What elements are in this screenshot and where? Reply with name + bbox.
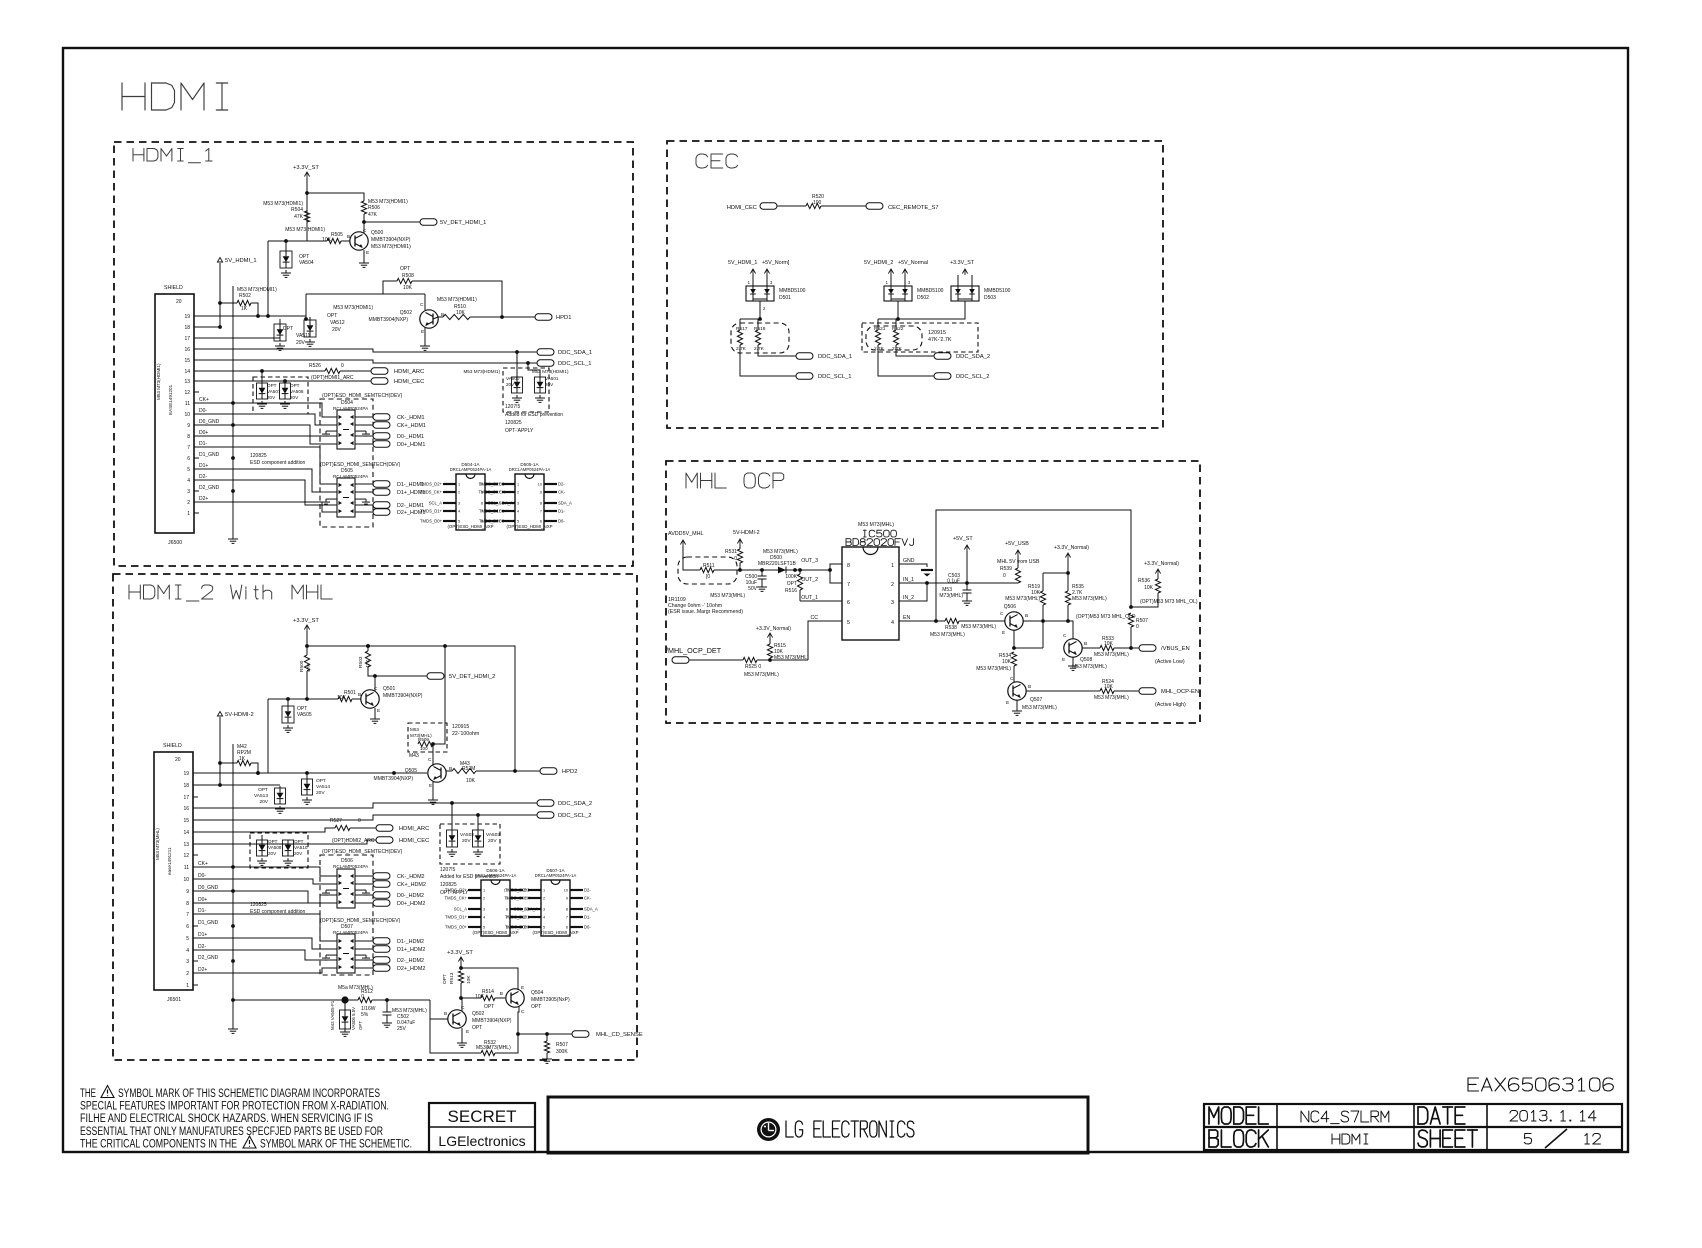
ports D504 outputs bbox=[355, 416, 373, 418]
svg-text:D0+: D0+ bbox=[199, 430, 208, 436]
ground VA503 bbox=[477, 849, 479, 852]
svg-text:TMDS_CK+: TMDS_CK+ bbox=[505, 896, 528, 901]
svg-text:D0_GND: D0_GND bbox=[199, 419, 220, 425]
svg-text:M53 M73(MHL): M53 M73(MHL) bbox=[1022, 705, 1057, 711]
svg-text:R539: R539 bbox=[1000, 566, 1012, 572]
svg-text:0.1uF: 0.1uF bbox=[947, 579, 960, 585]
label 5V-HDMI-2 bbox=[217, 712, 222, 717]
HDMI_1 section box bbox=[114, 142, 633, 566]
svg-text:10K: 10K bbox=[1002, 659, 1012, 665]
svg-text:7: 7 bbox=[566, 916, 568, 920]
port /MHL_OCP_DET bbox=[672, 657, 689, 663]
ground VA500 bbox=[516, 395, 518, 398]
svg-text:5: 5 bbox=[187, 467, 190, 473]
secret box bbox=[429, 1103, 535, 1152]
svg-text:18: 18 bbox=[183, 783, 189, 789]
wire DET row bbox=[757, 659, 808, 661]
svg-text:(OPT)HDMI1_ARC: (OPT)HDMI1_ARC bbox=[311, 375, 354, 381]
port DDC_SDA_2 bbox=[537, 800, 554, 806]
resistor R507 300K bbox=[546, 1034, 548, 1041]
svg-text:1: 1 bbox=[891, 563, 894, 569]
svg-text:DDC_SCL_2: DDC_SCL_2 bbox=[558, 813, 592, 819]
svg-text:M53 M73(MHL): M53 M73(MHL) bbox=[155, 828, 160, 860]
svg-text:(Active High): (Active High) bbox=[1155, 702, 1186, 708]
svg-text:D2_GND: D2_GND bbox=[198, 955, 219, 961]
svg-text:+3.3V_Normal): +3.3V_Normal) bbox=[1054, 545, 1089, 551]
value sheet 5 bbox=[1524, 1134, 1531, 1145]
svg-text:15: 15 bbox=[183, 818, 189, 824]
svg-text:2.7K: 2.7K bbox=[754, 346, 765, 352]
ground Q500 emitter bbox=[363, 250, 365, 260]
svg-text:R522: R522 bbox=[892, 326, 904, 332]
svg-text:5: 5 bbox=[543, 926, 545, 930]
svg-text:5V-HDMI-2: 5V-HDMI-2 bbox=[225, 712, 254, 718]
svg-text:11: 11 bbox=[185, 401, 190, 407]
svg-text:D0-: D0- bbox=[558, 519, 565, 524]
ports D507 outputs bbox=[355, 940, 373, 942]
svg-text:CK-: CK- bbox=[584, 896, 592, 901]
svg-text:Q508: Q508 bbox=[1080, 657, 1092, 663]
wires into D503 bbox=[957, 275, 959, 286]
wire HDMI_CEC row bbox=[199, 380, 371, 382]
wire pullup rail bbox=[1043, 559, 1068, 573]
svg-text:1: 1 bbox=[187, 511, 190, 517]
svg-text:/VBUS_EN: /VBUS_EN bbox=[1161, 646, 1190, 652]
svg-text:B: B bbox=[1084, 641, 1087, 647]
svg-text:9: 9 bbox=[540, 491, 542, 495]
svg-text:47K: 47K bbox=[306, 663, 312, 672]
svg-text:CK+_HDM2: CK+_HDM2 bbox=[397, 882, 426, 888]
resistor R503 47K bbox=[367, 646, 369, 651]
svg-text:VA514: VA514 bbox=[316, 784, 330, 790]
svg-text:5V_DET_HDMI_2: 5V_DET_HDMI_2 bbox=[449, 674, 495, 680]
svg-text:5: 5 bbox=[483, 926, 485, 930]
svg-text:D1_GND: D1_GND bbox=[199, 452, 220, 458]
svg-text:M43: M43 bbox=[409, 753, 419, 759]
MHL OCP section box bbox=[666, 461, 1200, 723]
MHL OCP section title bbox=[686, 473, 697, 488]
ground VA511 bbox=[279, 343, 281, 346]
svg-text:(OPT)M53 M73 MHL_OL): (OPT)M53 M73 MHL_OL) bbox=[1140, 599, 1198, 605]
svg-text:D2-: D2- bbox=[198, 944, 206, 950]
wire rail down (hdmi2) bbox=[267, 699, 269, 773]
capacitor C503 0.1uF bbox=[966, 583, 968, 590]
resistor R538 bbox=[945, 618, 959, 623]
svg-text:R516: R516 bbox=[785, 588, 797, 594]
svg-text:20V: 20V bbox=[462, 838, 471, 844]
svg-text:R504: R504 bbox=[291, 207, 303, 213]
svg-text:5V_HDMI_2: 5V_HDMI_2 bbox=[864, 260, 893, 266]
svg-text:SDA_A: SDA_A bbox=[558, 501, 572, 506]
svg-text:B: B bbox=[500, 991, 503, 997]
svg-text:10K: 10K bbox=[1104, 684, 1114, 690]
CEC section title bbox=[696, 154, 708, 168]
svg-text:300K: 300K bbox=[556, 1049, 568, 1055]
svg-text:10K: 10K bbox=[466, 975, 472, 984]
svg-text:TMDS_D2+: TMDS_D2+ bbox=[479, 482, 502, 487]
svg-text:(OPT)HDMI2_ARC: (OPT)HDMI2_ARC bbox=[332, 838, 375, 844]
wire D501 common bbox=[759, 301, 761, 319]
svg-text:5: 5 bbox=[517, 520, 519, 524]
svg-text:Q502: Q502 bbox=[400, 310, 412, 316]
svg-text:DRCLAMP0524PA-1A: DRCLAMP0524PA-1A bbox=[450, 467, 492, 472]
resistor R524 10K bbox=[1026, 690, 1100, 692]
svg-text:Q507: Q507 bbox=[1030, 697, 1042, 703]
svg-text:47K: 47K bbox=[294, 214, 304, 220]
svg-text:OPT: OPT bbox=[290, 383, 300, 388]
svg-text:OPT: OPT bbox=[484, 1004, 494, 1010]
svg-text:C: C bbox=[428, 757, 432, 763]
svg-text:[0: [0 bbox=[706, 574, 710, 580]
port 5V_DET_HDMI_1 bbox=[420, 219, 437, 225]
wire Q504 collector bbox=[518, 1006, 519, 1034]
HDMI_2 section title bbox=[128, 585, 130, 599]
svg-text:Added for ESD prevention: Added for ESD prevention bbox=[505, 412, 563, 418]
wire R503 to port row bbox=[368, 667, 375, 676]
resistor R504 47K bbox=[304, 211, 309, 222]
ground Q502 (hdmi2) bbox=[461, 1028, 463, 1040]
label DATE bbox=[1417, 1107, 1419, 1124]
svg-text:D0+: D0+ bbox=[198, 897, 207, 903]
ground VA507 bbox=[261, 401, 263, 404]
svg-text:M53 M73(MHL): M53 M73(MHL) bbox=[961, 624, 996, 630]
svg-text:R500: R500 bbox=[299, 660, 305, 672]
svg-text:47K-'2.7K: 47K-'2.7K bbox=[928, 337, 952, 343]
svg-text:10: 10 bbox=[184, 412, 190, 418]
svg-text:B: B bbox=[347, 234, 350, 240]
ground Q507 bbox=[1016, 700, 1018, 708]
svg-text:E: E bbox=[366, 250, 369, 256]
svg-text:VA508: VA508 bbox=[268, 845, 282, 850]
wire to 5V_DET_HDMI_2 bbox=[375, 675, 427, 677]
wire bbox=[363, 214, 365, 233]
svg-text:2: 2 bbox=[517, 491, 519, 495]
svg-text:OPT: OPT bbox=[268, 839, 278, 844]
svg-text:SYMBOL MARK OF THE SCHEMETIC.: SYMBOL MARK OF THE SCHEMETIC. bbox=[260, 1136, 412, 1150]
svg-text:D0+_HDM2: D0+_HDM2 bbox=[397, 901, 425, 907]
wire pin17 row to VA pair bbox=[199, 324, 280, 338]
svg-text:(OPT)ESD_HDMI_SEMTECH(DEV): (OPT)ESD_HDMI_SEMTECH(DEV) bbox=[320, 918, 401, 924]
svg-text:D503: D503 bbox=[984, 295, 996, 301]
svg-text:M53 M73(HDMI1): M53 M73(HDMI1) bbox=[437, 297, 477, 303]
svg-text:B: B bbox=[1025, 613, 1028, 619]
svg-text:OPT: OPT bbox=[283, 326, 293, 332]
ground C500 bbox=[761, 579, 763, 584]
wire MHL_CD_SENSE bbox=[518, 1033, 572, 1035]
svg-text:DDC_SDA_1: DDC_SDA_1 bbox=[818, 354, 852, 360]
svg-text:CK+: CK+ bbox=[198, 861, 208, 867]
tvs diode VA513 bbox=[198, 784, 280, 786]
svg-text:DRCLAMP0524PA-1A: DRCLAMP0524PA-1A bbox=[535, 873, 577, 878]
svg-text:1: 1 bbox=[483, 889, 485, 893]
svg-text:3: 3 bbox=[458, 502, 460, 506]
svg-text:2.7K: 2.7K bbox=[736, 346, 747, 352]
svg-text:TMDS_CK+: TMDS_CK+ bbox=[479, 490, 502, 495]
svg-text:M53: M53 bbox=[410, 727, 419, 732]
svg-text:D0-: D0- bbox=[584, 925, 591, 930]
svg-text:M53 M73(HDMI1): M53 M73(HDMI1) bbox=[333, 305, 373, 311]
wire bbox=[306, 631, 308, 655]
resistor R517 2.7K bbox=[740, 318, 758, 320]
value sheet 12 bbox=[1585, 1134, 1587, 1145]
transistor Q502 (hdmi2) bbox=[448, 1010, 466, 1028]
svg-text:R517: R517 bbox=[736, 326, 748, 332]
top loop wire bbox=[936, 510, 1131, 621]
ground Q501 bbox=[374, 708, 376, 716]
svg-text:D1-_HDM2: D1-_HDM2 bbox=[397, 939, 424, 945]
svg-text:J6501: J6501 bbox=[167, 997, 181, 1003]
svg-text:10: 10 bbox=[538, 483, 542, 487]
svg-text:MMBT3904(NXP): MMBT3904(NXP) bbox=[472, 1018, 512, 1024]
port HPD1 bbox=[535, 314, 552, 320]
svg-text:J6500: J6500 bbox=[168, 540, 182, 546]
port HDMI_ARC (hdmi2) bbox=[376, 825, 393, 831]
port DDC_SCL_2 bbox=[537, 812, 554, 818]
svg-text:M53 M73(MHL): M53 M73(MHL) bbox=[1094, 695, 1129, 701]
svg-text:E: E bbox=[429, 783, 432, 789]
svg-text:0: 0 bbox=[358, 818, 361, 824]
svg-text:M53 M73(MHL): M53 M73(MHL) bbox=[1072, 596, 1107, 602]
svg-text:17: 17 bbox=[184, 336, 190, 342]
dashed option box R517 R518 bbox=[731, 323, 789, 353]
svg-text:OUT_1: OUT_1 bbox=[801, 595, 818, 601]
wire Q505 collector bbox=[432, 760, 434, 766]
svg-text:R513: R513 bbox=[449, 972, 455, 984]
svg-text:R525 0: R525 0 bbox=[745, 664, 761, 670]
svg-text:D0-: D0- bbox=[199, 408, 207, 414]
svg-text:R506: R506 bbox=[368, 205, 380, 211]
wire D502 common bbox=[897, 301, 899, 319]
svg-text:+3.3V_ST: +3.3V_ST bbox=[293, 618, 319, 624]
ground VA502 bbox=[451, 849, 453, 852]
svg-text:5V_HDMI_1: 5V_HDMI_1 bbox=[728, 260, 757, 266]
wire to Q504 emitter bbox=[461, 968, 518, 990]
resistor R535 2.7K bbox=[1067, 573, 1069, 591]
svg-text:16: 16 bbox=[184, 347, 190, 353]
svg-text:M53 M73(MHL): M53 M73(MHL) bbox=[710, 593, 745, 599]
svg-text:M53 M73(MHL): M53 M73(MHL) bbox=[774, 655, 809, 661]
svg-text:VA508: VA508 bbox=[290, 389, 304, 394]
svg-text:MMBD5100: MMBD5100 bbox=[984, 288, 1011, 294]
svg-text:Q506: Q506 bbox=[1004, 604, 1016, 610]
svg-text:LGElectronics: LGElectronics bbox=[438, 1133, 525, 1149]
ground shield rail bbox=[232, 536, 234, 539]
svg-text:SDA_A: SDA_A bbox=[584, 907, 598, 912]
port HDMI_CEC bbox=[371, 378, 388, 384]
svg-text:120915: 120915 bbox=[452, 724, 469, 730]
svg-text:IN_1: IN_1 bbox=[903, 577, 914, 583]
svg-text:3: 3 bbox=[517, 502, 519, 506]
ground IC500 bbox=[921, 569, 933, 571]
svg-text:E: E bbox=[521, 985, 524, 991]
wire bbox=[460, 963, 462, 968]
svg-text:4: 4 bbox=[187, 478, 190, 484]
svg-text:OUT_3: OUT_3 bbox=[801, 558, 818, 564]
tvs diode VA510 bbox=[287, 840, 289, 848]
CEC section box bbox=[667, 141, 1163, 428]
capacitor C502 bbox=[386, 1000, 388, 1012]
svg-text:R536: R536 bbox=[1138, 578, 1150, 584]
port CEC_REMOTE_S7 bbox=[866, 203, 883, 209]
svg-text:HDMI_CEC: HDMI_CEC bbox=[394, 379, 424, 385]
resistor R512 0 bbox=[358, 997, 372, 1002]
svg-text:M53 M73(MHL): M53 M73(MHL) bbox=[930, 632, 965, 638]
svg-text:MHL_CD_SENSE: MHL_CD_SENSE bbox=[596, 1032, 643, 1038]
dual diode D503 MMBD5100 bbox=[951, 286, 979, 301]
svg-text:19: 19 bbox=[183, 771, 189, 777]
tvs diode VA511 bbox=[279, 319, 281, 324]
svg-text:CK-_HDM2: CK-_HDM2 bbox=[397, 874, 425, 880]
svg-text:M53 M73(MHL): M53 M73(MHL) bbox=[476, 1045, 511, 1051]
svg-text:B: B bbox=[358, 692, 361, 698]
svg-text:2: 2 bbox=[458, 491, 460, 495]
wire OUT_3 bbox=[795, 564, 842, 570]
ESD ic D505 bbox=[337, 478, 355, 517]
port HDMI_CEC (hdmi2) bbox=[376, 837, 393, 843]
svg-text:OPT: OPT bbox=[787, 581, 797, 587]
ground VA514 bbox=[306, 797, 308, 800]
HDMI_2 section box bbox=[113, 574, 637, 1060]
svg-text:10K: 10K bbox=[475, 994, 485, 1000]
svg-text:(OPT)M53 M73 MHL_OLD: (OPT)M53 M73 MHL_OLD bbox=[1076, 614, 1136, 620]
value HDMI bbox=[1331, 1134, 1333, 1144]
svg-text:100K: 100K bbox=[785, 574, 797, 580]
svg-text:CK-: CK- bbox=[558, 490, 566, 495]
tvs diodes VA508 VA510 box (hdmi2) bbox=[250, 833, 308, 868]
svg-text:20V: 20V bbox=[545, 382, 554, 387]
transistor Q501 bbox=[361, 690, 379, 708]
tvs diode VA508 bbox=[284, 381, 286, 383]
svg-text:1207!5: 1207!5 bbox=[505, 404, 521, 410]
svg-text:M53 M73(MHL): M53 M73(MHL) bbox=[976, 666, 1011, 672]
svg-text:MMBD5100: MMBD5100 bbox=[917, 288, 944, 294]
transistor Q508 bbox=[1064, 639, 1082, 657]
svg-text:MMBT3905(NxP): MMBT3905(NxP) bbox=[531, 997, 570, 1003]
wire DDC_SCL_1 bbox=[199, 360, 537, 363]
svg-text:HDMI_CEC: HDMI_CEC bbox=[399, 838, 429, 844]
svg-text:SCL_A: SCL_A bbox=[514, 907, 527, 912]
svg-text:2: 2 bbox=[187, 500, 190, 506]
port DDC_SDA_1 (cec) bbox=[796, 353, 813, 359]
svg-text:50V: 50V bbox=[748, 586, 758, 592]
svg-text:C: C bbox=[363, 228, 367, 234]
ground VA501 bbox=[539, 395, 541, 398]
svg-text:VA503: VA503 bbox=[486, 832, 500, 838]
wire DDC_SDA_2 bbox=[198, 803, 537, 808]
svg-text:TMDS_D0+: TMDS_D0+ bbox=[420, 519, 443, 524]
svg-text:D2+: D2+ bbox=[199, 496, 208, 502]
svg-text:DDC_SDA_2: DDC_SDA_2 bbox=[558, 801, 592, 807]
svg-text:AVDD5V_MHL: AVDD5V_MHL bbox=[668, 531, 704, 537]
wire bbox=[268, 240, 307, 242]
svg-text:OPT: OPT bbox=[400, 266, 410, 272]
wire pin18 to rail bbox=[199, 326, 220, 328]
svg-text:120915: 120915 bbox=[928, 330, 946, 336]
svg-text:(OPT)ESD_HDMI_NXP: (OPT)ESD_HDMI_NXP bbox=[506, 524, 552, 529]
svg-text:D2-: D2- bbox=[584, 888, 591, 893]
wires into D505 bbox=[199, 447, 337, 484]
svg-text:RCLAMP0524PA: RCLAMP0524PA bbox=[333, 864, 369, 869]
wire HPD2 to rail bbox=[368, 646, 515, 771]
resistor R534 10K bbox=[1011, 652, 1016, 666]
svg-text:M53 M73(MHL): M53 M73(MHL) bbox=[744, 672, 779, 678]
svg-text:ease1491211: ease1491211 bbox=[167, 847, 172, 875]
ground rail (hdmi2) bbox=[232, 1026, 234, 1029]
svg-text:OPT: OPT bbox=[316, 778, 326, 784]
svg-text:10K: 10K bbox=[1104, 641, 1114, 647]
svg-text:6: 6 bbox=[847, 600, 850, 606]
svg-text:(OPT)ESD_HDMI_NXP: (OPT)ESD_HDMI_NXP bbox=[532, 930, 578, 935]
resistor R516 100K OPT bbox=[798, 568, 802, 572]
svg-text:4: 4 bbox=[458, 510, 460, 514]
svg-text:0: 0 bbox=[361, 994, 364, 1000]
svg-text:4: 4 bbox=[543, 916, 545, 920]
svg-text:20V: 20V bbox=[296, 340, 306, 346]
title block table bbox=[1204, 1104, 1622, 1150]
svg-text:10K: 10K bbox=[466, 778, 476, 784]
svg-text:R521: R521 bbox=[874, 326, 886, 332]
wires into D502 bbox=[890, 275, 892, 286]
svg-text:8: 8 bbox=[186, 901, 189, 907]
svg-text:OPT: OPT bbox=[258, 787, 268, 793]
port DDC_SCL_1 bbox=[537, 360, 554, 366]
svg-text:D502: D502 bbox=[917, 295, 929, 301]
svg-text:0: 0 bbox=[734, 556, 737, 562]
svg-text:5: 5 bbox=[186, 936, 189, 942]
svg-text:OPT: OPT bbox=[531, 1004, 541, 1010]
svg-text:9: 9 bbox=[187, 423, 190, 429]
port DDC_SCL_1 (cec) bbox=[796, 373, 813, 379]
wire R521 to DDC_SCL_2 bbox=[878, 345, 934, 376]
wire mhl sense row bbox=[231, 998, 235, 1002]
wire 5V arrow rail bbox=[219, 263, 221, 327]
svg-text:R509: R509 bbox=[418, 737, 429, 742]
resistor R525 0 bbox=[743, 657, 757, 662]
svg-text:DDC_SCL_1: DDC_SCL_1 bbox=[818, 374, 852, 380]
svg-text:VA512: VA512 bbox=[330, 320, 345, 326]
svg-text:D1-: D1- bbox=[198, 908, 206, 914]
svg-text:D0+_HDM1: D0+_HDM1 bbox=[397, 442, 425, 448]
svg-text:E: E bbox=[377, 708, 380, 714]
svg-text:8: 8 bbox=[566, 908, 568, 912]
svg-text:VA506 5.5V: VA506 5.5V bbox=[351, 1007, 356, 1030]
svg-text:8: 8 bbox=[187, 434, 190, 440]
svg-text:+3.3V_ST: +3.3V_ST bbox=[447, 950, 473, 956]
tvs diodes VA500 VA501 box bbox=[503, 368, 549, 412]
transistor Q502 (base right) bbox=[420, 310, 438, 328]
svg-text:OPT: OPT bbox=[294, 839, 304, 844]
svg-text:4: 4 bbox=[891, 620, 894, 626]
wire R508 to HPD node bbox=[412, 281, 502, 317]
ground VA508b bbox=[261, 858, 263, 861]
svg-text:MMBT3904(NXP): MMBT3904(NXP) bbox=[383, 693, 423, 699]
svg-text:1: 1 bbox=[186, 983, 189, 989]
svg-text:OPT: OPT bbox=[327, 313, 337, 319]
wire bbox=[307, 193, 364, 201]
svg-text:SHIELD: SHIELD bbox=[163, 743, 182, 749]
svg-text:/MHL_OCP_DET: /MHL_OCP_DET bbox=[666, 646, 722, 655]
svg-text:7: 7 bbox=[540, 510, 542, 514]
svg-text:R531: R531 bbox=[725, 549, 737, 555]
wire Q506 out bbox=[1023, 620, 1068, 622]
port HPD2 bbox=[540, 768, 557, 774]
svg-text:6: 6 bbox=[187, 456, 190, 462]
svg-text:TMDS_D1+: TMDS_D1+ bbox=[479, 509, 502, 514]
ground VA505 bbox=[287, 725, 289, 728]
svg-text:+5V_USB: +5V_USB bbox=[1005, 541, 1029, 547]
big junction bbox=[341, 996, 348, 1003]
ground VA512 bbox=[309, 339, 311, 342]
